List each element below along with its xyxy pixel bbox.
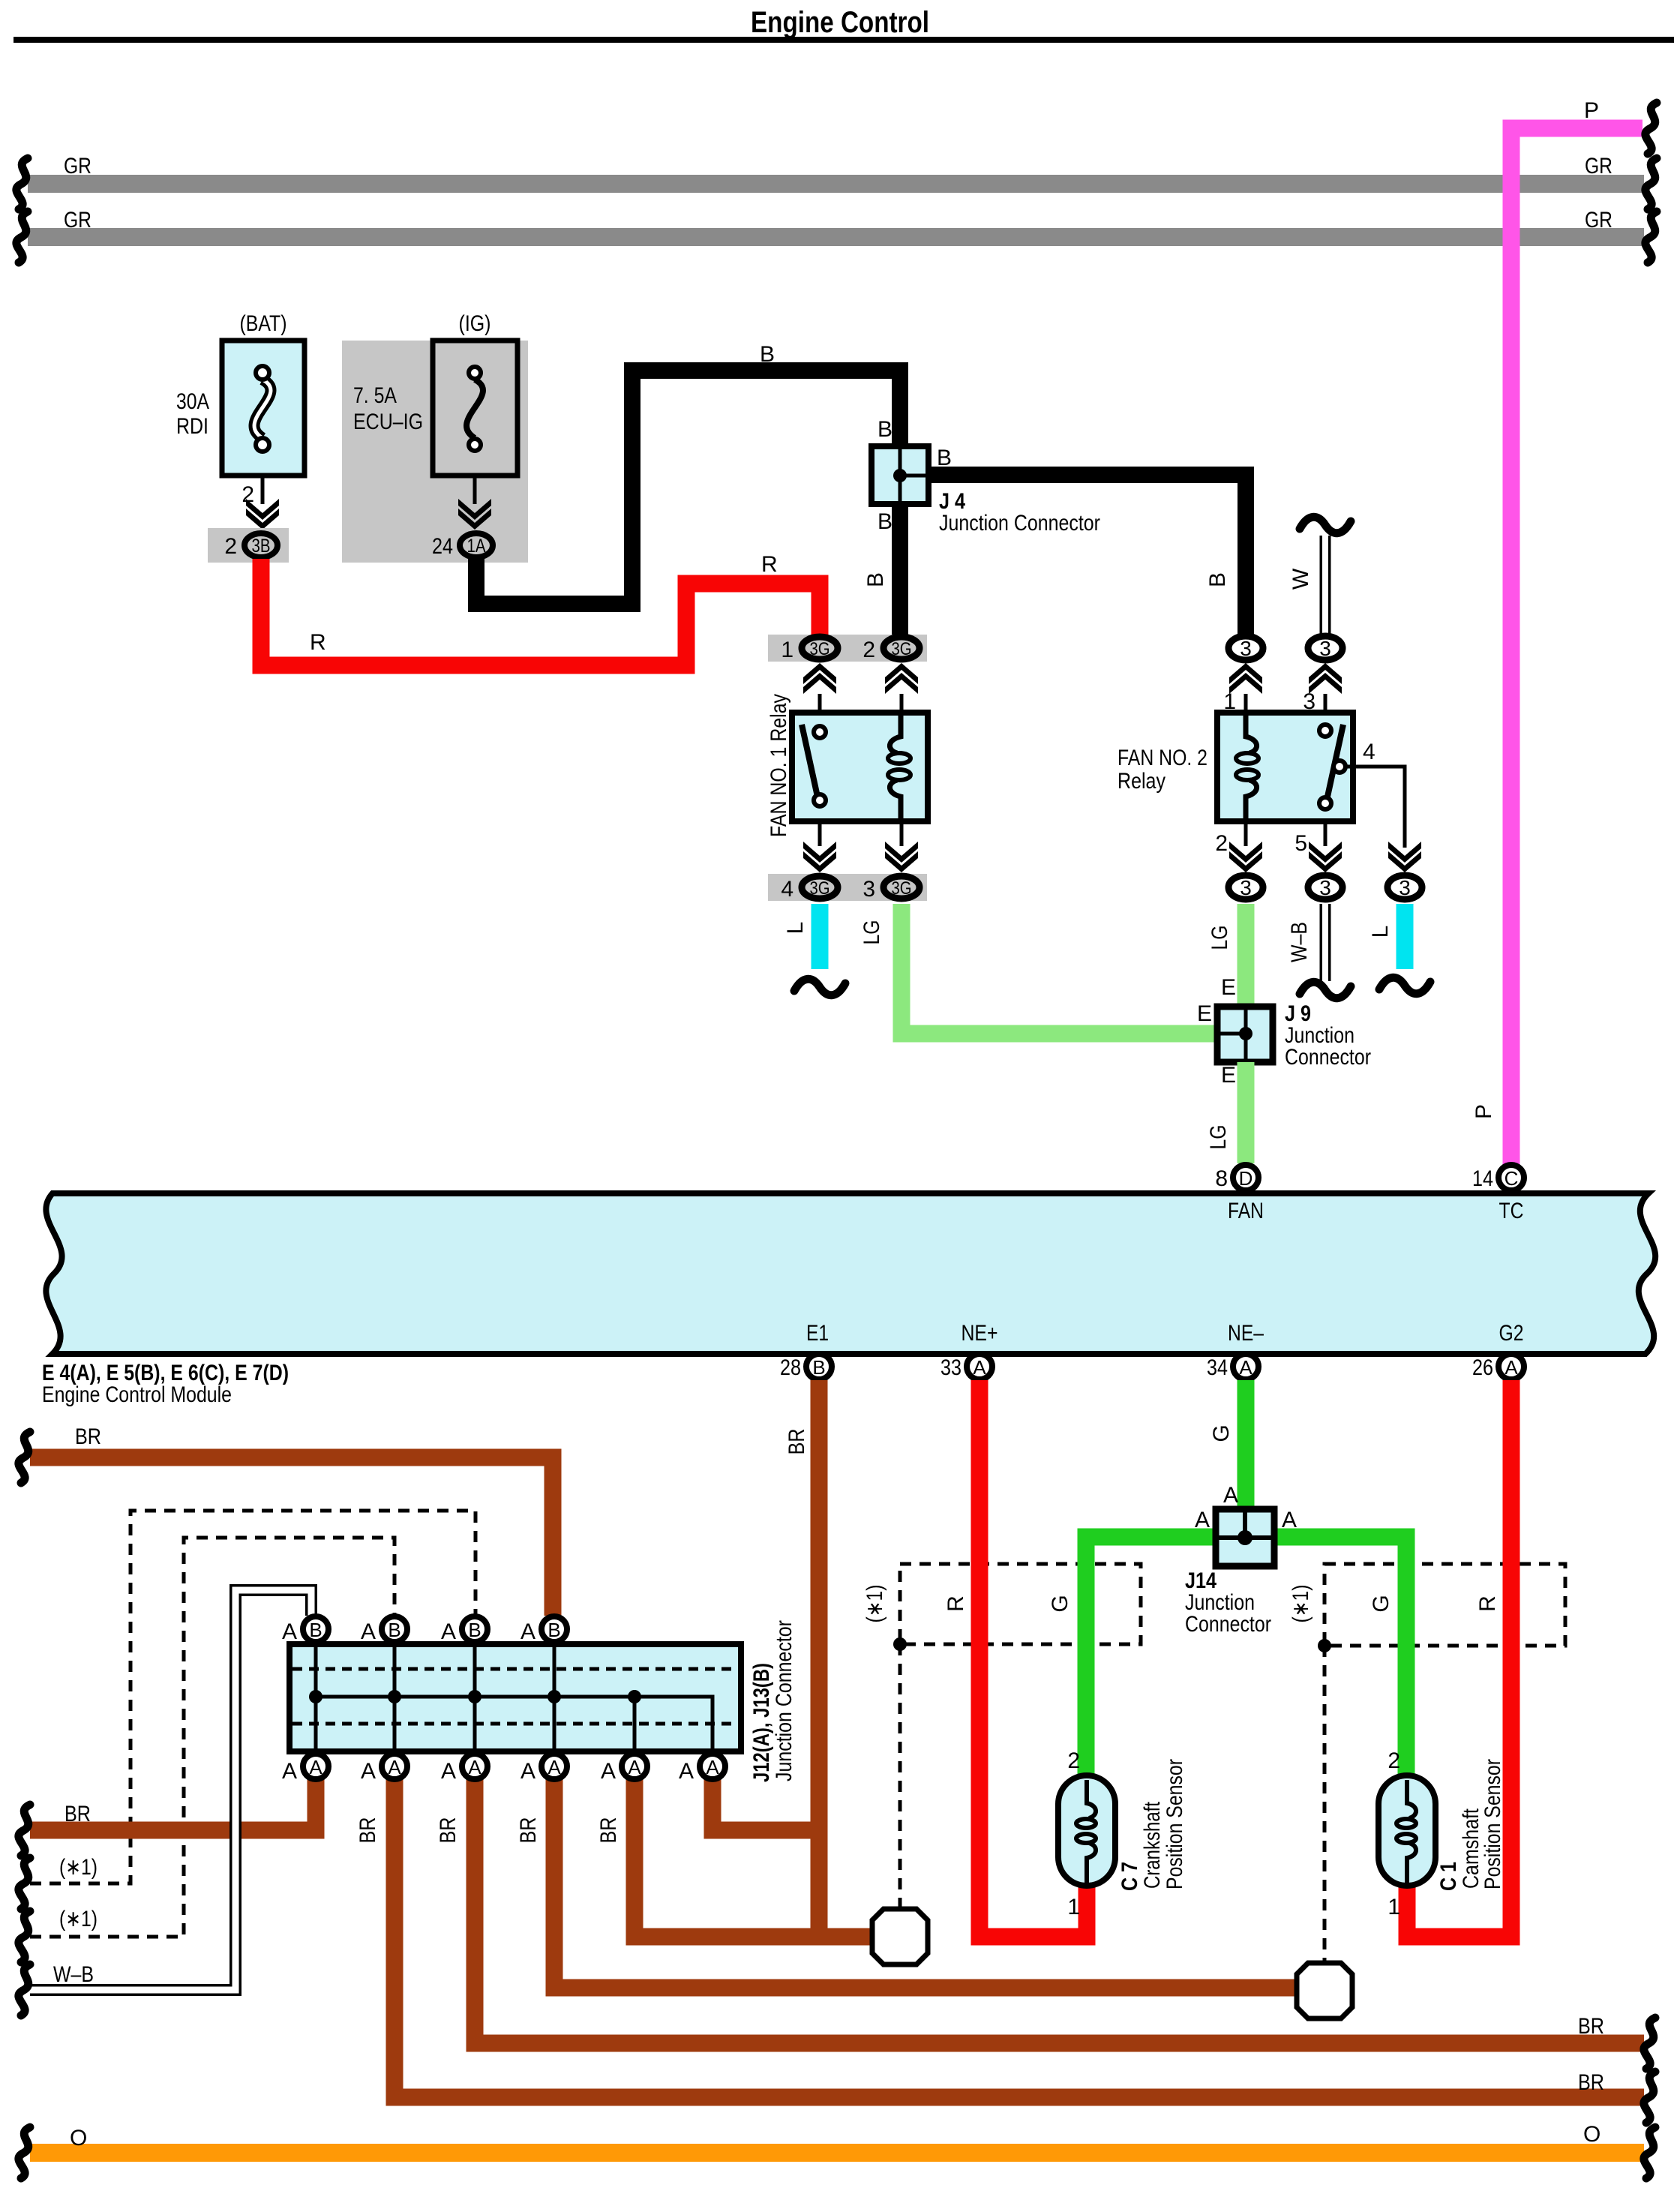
junction connector J14 bbox=[1216, 1509, 1274, 1566]
svg-text:Crankshaft: Crankshaft bbox=[1140, 1801, 1165, 1889]
wire G green NE- to J14 bbox=[1237, 1380, 1255, 1530]
svg-text:B: B bbox=[812, 1356, 825, 1379]
svg-text:A: A bbox=[1195, 1508, 1210, 1532]
svg-text:A: A bbox=[441, 1619, 456, 1644]
svg-text:Connector: Connector bbox=[1285, 1045, 1371, 1070]
wire shield drop left dashed bbox=[898, 1644, 902, 1907]
wire BR J12 A6 to E1 branch bbox=[712, 1779, 819, 1830]
svg-text:O: O bbox=[1583, 2122, 1600, 2147]
J12 internal vertical 4 bbox=[553, 1644, 556, 1751]
svg-text:4: 4 bbox=[781, 877, 793, 902]
svg-text:D: D bbox=[1239, 1167, 1253, 1190]
terminal 28 B E1 bbox=[806, 1354, 832, 1379]
svg-text:3: 3 bbox=[862, 877, 875, 902]
svg-text:BR: BR bbox=[75, 1424, 101, 1449]
svg-text:GR: GR bbox=[1585, 154, 1612, 179]
wire relay2 pin5 arrow bbox=[1324, 821, 1327, 846]
svg-text:Position Sensor: Position Sensor bbox=[1162, 1759, 1187, 1889]
svg-text:B: B bbox=[388, 1619, 400, 1641]
svg-text:B: B bbox=[937, 446, 952, 470]
svg-text:BR: BR bbox=[596, 1817, 621, 1844]
svg-text:A: A bbox=[973, 1356, 986, 1379]
shield octagon 1 bbox=[872, 1909, 928, 1964]
break symbol L relay1 bbox=[794, 979, 845, 995]
J12 internal bus solid bbox=[316, 1697, 712, 1748]
svg-text:A: A bbox=[601, 1759, 616, 1784]
break symbol BR A1 left bbox=[19, 1805, 30, 1856]
wire O orange bottom bus bbox=[30, 2144, 1644, 2162]
relay2 pin4 contact circle bbox=[1333, 761, 1345, 773]
svg-text:O: O bbox=[70, 2126, 87, 2150]
relay1 coil bbox=[889, 713, 901, 753]
svg-text:LG: LG bbox=[859, 920, 884, 945]
wire relay2 pin4 bbox=[1345, 767, 1405, 848]
terminal 1 3G bbox=[802, 637, 838, 659]
svg-text:26: 26 bbox=[1472, 1355, 1493, 1380]
wire B black from 1A to J4 to relay1 pin2 bbox=[476, 371, 900, 636]
break symbol dashed inner bbox=[19, 1911, 30, 1962]
svg-text:GR: GR bbox=[64, 154, 91, 179]
svg-text:E: E bbox=[1197, 1001, 1212, 1026]
break symbol O left bbox=[19, 2127, 30, 2178]
svg-text:LG: LG bbox=[1207, 926, 1232, 950]
svg-text:2: 2 bbox=[224, 534, 237, 559]
svg-text:34: 34 bbox=[1207, 1355, 1228, 1380]
svg-text:2: 2 bbox=[1067, 1748, 1080, 1773]
svg-text:A: A bbox=[388, 1756, 401, 1778]
J12 internal vertical 2 bbox=[393, 1644, 397, 1751]
wire W-B below relay2 pin5 bbox=[1320, 904, 1331, 981]
svg-text:(BAT): (BAT) bbox=[240, 311, 287, 336]
wire relay1 pin3 arrow bbox=[900, 821, 904, 846]
terminal 26 A G2 bbox=[1498, 1354, 1524, 1379]
svg-text:G2: G2 bbox=[1499, 1321, 1524, 1346]
wire W-B thin from left to J12 B1 bbox=[30, 1590, 311, 1990]
svg-text:BR: BR bbox=[64, 1802, 91, 1826]
svg-text:(∗1): (∗1) bbox=[59, 1907, 97, 1931]
break symbol GR2 left bbox=[16, 212, 28, 263]
svg-text:A: A bbox=[706, 1756, 719, 1778]
svg-text:BR: BR bbox=[355, 1817, 380, 1844]
terminal 2 3G bbox=[883, 637, 919, 659]
terminal band 3G bottom relay1 bbox=[768, 874, 927, 901]
svg-text:C: C bbox=[1504, 1167, 1519, 1190]
svg-text:A: A bbox=[547, 1756, 561, 1778]
svg-text:8: 8 bbox=[1215, 1166, 1228, 1191]
break symbol GR1 right bbox=[1645, 158, 1657, 209]
wire BR J12 A4 to shield octagon 2 bbox=[554, 1779, 1298, 1988]
terminal B1 J12 bbox=[303, 1616, 328, 1642]
svg-text:GR: GR bbox=[64, 208, 91, 233]
svg-text:Relay: Relay bbox=[1117, 769, 1165, 794]
svg-text:A: A bbox=[1239, 1356, 1252, 1379]
svg-text:BR: BR bbox=[784, 1429, 809, 1455]
wire BR J12 A3 to right edge bbox=[475, 1779, 1644, 2043]
wire R red from 3B to relay1 pin1 bbox=[261, 559, 820, 665]
svg-text:3G: 3G bbox=[892, 878, 912, 899]
svg-text:28: 28 bbox=[780, 1355, 801, 1380]
svg-text:BR: BR bbox=[1578, 2014, 1604, 2039]
svg-text:A: A bbox=[520, 1759, 535, 1784]
svg-text:W: W bbox=[1288, 568, 1313, 590]
svg-text:ECU–IG: ECU–IG bbox=[353, 410, 423, 434]
J12 internal dashed row 1 bbox=[292, 1667, 738, 1671]
svg-text:Engine Control: Engine Control bbox=[751, 6, 929, 39]
terminal band 3G top relay1 bbox=[768, 635, 927, 662]
fuse element ECU-IG bbox=[466, 380, 483, 438]
svg-text:L: L bbox=[783, 922, 808, 935]
terminal 3 top-right relay2 bbox=[1308, 636, 1342, 660]
terminal 3B bbox=[244, 533, 277, 557]
svg-text:3G: 3G bbox=[810, 639, 830, 659]
svg-text:3: 3 bbox=[1240, 637, 1252, 660]
break symbol BR2 right bbox=[1644, 2072, 1655, 2123]
svg-text:RDI: RDI bbox=[176, 414, 208, 439]
svg-text:G: G bbox=[1209, 1424, 1234, 1442]
svg-text:33: 33 bbox=[940, 1355, 961, 1380]
svg-text:P: P bbox=[1584, 98, 1599, 123]
svg-text:(∗1): (∗1) bbox=[862, 1585, 887, 1623]
wire BR J12 A5 to shield octagon 1 bbox=[634, 1779, 874, 1937]
svg-text:A: A bbox=[441, 1759, 456, 1784]
terminal 3 bottom-mid relay2 bbox=[1308, 875, 1342, 899]
wire BR from E1 28B down bbox=[811, 1380, 828, 1937]
svg-text:24: 24 bbox=[432, 534, 453, 559]
terminal 3 bottom-left relay2 bbox=[1228, 875, 1263, 899]
svg-text:A: A bbox=[628, 1756, 641, 1778]
svg-text:B: B bbox=[863, 572, 888, 587]
svg-text:B: B bbox=[760, 342, 775, 367]
svg-text:A: A bbox=[1282, 1508, 1297, 1532]
sensor C1 camshaft position sensor bbox=[1378, 1775, 1435, 1886]
svg-text:A: A bbox=[520, 1619, 535, 1644]
junction connector J4 bbox=[871, 446, 928, 504]
terminal 3 top-left relay2 bbox=[1228, 636, 1263, 660]
svg-text:5: 5 bbox=[1294, 831, 1307, 856]
svg-text:A: A bbox=[282, 1759, 297, 1784]
svg-text:B: B bbox=[309, 1619, 322, 1641]
svg-text:3: 3 bbox=[1399, 876, 1411, 899]
wire relay1 pin4 arrow bbox=[818, 821, 822, 846]
svg-text:R: R bbox=[943, 1595, 968, 1612]
terminal B3 J12 bbox=[462, 1616, 487, 1642]
wire relay2 pin2 arrow bbox=[1244, 821, 1248, 846]
fuse element 30A RDI bbox=[254, 380, 271, 438]
svg-text:B: B bbox=[877, 509, 892, 534]
svg-text:P: P bbox=[1471, 1104, 1496, 1119]
terminal 3 3G bbox=[883, 876, 919, 899]
fuse 30A RDI box bbox=[222, 341, 304, 476]
svg-text:B: B bbox=[1205, 572, 1230, 587]
svg-text:FAN: FAN bbox=[1228, 1199, 1264, 1223]
svg-text:3: 3 bbox=[1240, 876, 1252, 899]
wire relay1 pin1 arrow bbox=[818, 694, 822, 713]
wire GR bus 1 bbox=[28, 175, 1644, 193]
wire L below relay2 pin4 bbox=[1396, 904, 1414, 969]
wire relay2 pin1 arrow bbox=[1244, 694, 1248, 713]
svg-text:3G: 3G bbox=[810, 878, 830, 899]
svg-text:14: 14 bbox=[1472, 1166, 1493, 1191]
svg-text:2: 2 bbox=[1387, 1748, 1400, 1773]
svg-text:NE+: NE+ bbox=[961, 1321, 998, 1346]
svg-text:B: B bbox=[877, 417, 892, 442]
terminal 14 C TC bbox=[1498, 1165, 1524, 1190]
wire R red G2 to C1 pin1 bbox=[1407, 1380, 1511, 1937]
wire LG relay2 pin2 to J9 bbox=[1237, 904, 1255, 1007]
J12 internal vertical 3 bbox=[473, 1644, 477, 1751]
wire GR bus 2 bbox=[28, 228, 1644, 246]
svg-text:A: A bbox=[282, 1619, 297, 1644]
wire relay2 pin3 arrow bbox=[1324, 694, 1327, 713]
dashed box right (*1) bbox=[1324, 1564, 1565, 1646]
svg-text:Connector: Connector bbox=[1185, 1612, 1271, 1637]
wire P pink TC line bbox=[1511, 128, 1642, 1167]
svg-text:A: A bbox=[1223, 1483, 1238, 1508]
svg-text:1A: 1A bbox=[467, 536, 486, 557]
svg-text:3G: 3G bbox=[892, 639, 912, 659]
svg-text:Junction Connector: Junction Connector bbox=[939, 511, 1100, 536]
wire W white above relay2 pin3 bbox=[1320, 536, 1331, 634]
J12 internal dots bbox=[309, 1690, 322, 1703]
svg-text:E: E bbox=[1221, 1063, 1236, 1088]
J12 internal vertical 1 bbox=[314, 1644, 318, 1751]
terminal A5 J12 bbox=[622, 1754, 647, 1779]
terminal A1 J12 bbox=[303, 1754, 328, 1779]
dashed box left (*1) bbox=[900, 1564, 1141, 1644]
terminal 1A bbox=[460, 533, 493, 557]
svg-text:G: G bbox=[1048, 1595, 1072, 1612]
terminal 8 D FAN bbox=[1233, 1165, 1258, 1190]
terminal 33 A NE+ bbox=[967, 1354, 992, 1379]
break symbol GR1 left bbox=[16, 158, 28, 209]
svg-text:2: 2 bbox=[1215, 831, 1228, 856]
svg-text:B: B bbox=[547, 1619, 560, 1641]
svg-text:A: A bbox=[468, 1756, 481, 1778]
svg-text:BR: BR bbox=[516, 1817, 541, 1844]
svg-text:1: 1 bbox=[1387, 1895, 1400, 1919]
svg-text:J12(A), J13(B): J12(A), J13(B) bbox=[749, 1663, 774, 1782]
terminal A6 J12 bbox=[700, 1754, 725, 1779]
svg-text:A: A bbox=[679, 1759, 694, 1784]
svg-text:FAN NO. 2: FAN NO. 2 bbox=[1117, 746, 1207, 770]
svg-text:C 1: C 1 bbox=[1436, 1862, 1461, 1891]
svg-text:A: A bbox=[1504, 1356, 1518, 1379]
wire G green J14 cross to sensors bbox=[1086, 1537, 1406, 1775]
svg-text:(IG): (IG) bbox=[459, 311, 491, 336]
wire B black J4 to relay2 pin1 bbox=[920, 475, 1246, 634]
break symbol W-B left bbox=[19, 1964, 30, 2015]
svg-text:E: E bbox=[1221, 975, 1236, 1000]
shield octagon 2 bbox=[1297, 1963, 1352, 2018]
svg-text:L: L bbox=[1368, 926, 1393, 938]
svg-text:7. 5A: 7. 5A bbox=[353, 383, 397, 408]
svg-text:(∗1): (∗1) bbox=[59, 1855, 97, 1880]
relay2 coil bbox=[1246, 713, 1257, 753]
break symbol W top bbox=[1300, 517, 1351, 533]
svg-text:3: 3 bbox=[1319, 637, 1331, 660]
terminal 4 3G bbox=[802, 876, 838, 899]
svg-text:FAN NO. 1 Relay: FAN NO. 1 Relay bbox=[766, 694, 791, 837]
svg-text:R: R bbox=[1475, 1595, 1500, 1612]
svg-text:A: A bbox=[361, 1619, 376, 1644]
wire relay1 pin2 arrow bbox=[900, 694, 904, 713]
svg-text:4: 4 bbox=[1363, 740, 1375, 764]
svg-text:3B: 3B bbox=[252, 536, 271, 557]
terminal B4 J12 bbox=[541, 1616, 567, 1642]
svg-text:R: R bbox=[761, 552, 778, 577]
svg-text:W–B: W–B bbox=[1287, 922, 1312, 962]
fuse 7.5A ECU-IG box bbox=[433, 341, 517, 476]
break symbol BR1 right bbox=[1644, 2018, 1655, 2069]
terminal 3 bottom-right relay2 bbox=[1387, 875, 1422, 899]
break symbol O right bbox=[1644, 2127, 1655, 2178]
node dot right dashed box bbox=[1318, 1639, 1331, 1652]
break symbol BR top left bbox=[19, 1432, 30, 1483]
svg-text:3: 3 bbox=[1319, 876, 1331, 899]
junction connector J9 bbox=[1217, 1007, 1273, 1062]
terminal A3 J12 bbox=[462, 1754, 487, 1779]
svg-text:2: 2 bbox=[862, 638, 875, 662]
wire BR from J12 A1 to left bbox=[30, 1779, 316, 1830]
terminal A4 J12 bbox=[541, 1754, 567, 1779]
J12 internal vertical 5 bbox=[633, 1697, 637, 1751]
svg-text:2: 2 bbox=[241, 482, 254, 507]
svg-text:NE–: NE– bbox=[1228, 1321, 1264, 1346]
wire (*1) dashed outer to J12 B3 bbox=[30, 1511, 475, 1883]
svg-text:Junction Connector: Junction Connector bbox=[772, 1620, 796, 1781]
wire shield drop right dashed bbox=[1323, 1646, 1327, 1961]
svg-text:Engine Control Module: Engine Control Module bbox=[42, 1382, 232, 1407]
relay FAN NO. 2 Relay box bbox=[1217, 713, 1353, 821]
wire fuse RDI to terminal 3B bbox=[261, 476, 265, 504]
svg-text:G: G bbox=[1369, 1595, 1393, 1612]
svg-text:BR: BR bbox=[436, 1817, 460, 1844]
break symbol W-B bbox=[1300, 982, 1351, 998]
node dot left dashed box bbox=[893, 1637, 907, 1651]
terminal 3B highlight bbox=[208, 528, 289, 563]
svg-text:LG: LG bbox=[1206, 1125, 1231, 1150]
wire (*1) dashed inner to J12 B2 bbox=[30, 1538, 394, 1937]
svg-text:BR: BR bbox=[1578, 2070, 1604, 2095]
break symbol L relay2 bbox=[1379, 977, 1430, 993]
sensor C7 crankshaft position sensor bbox=[1058, 1775, 1115, 1886]
ECM Engine Control Module band bbox=[46, 1193, 1655, 1354]
terminal B2 J12 bbox=[382, 1616, 407, 1642]
wire LG J9 to ECM FAN bbox=[1237, 1062, 1255, 1163]
title rule bbox=[13, 37, 1674, 43]
svg-text:GR: GR bbox=[1585, 208, 1612, 233]
wire BR J12 A2 to right edge bbox=[394, 1779, 1644, 2097]
svg-text:Position Sensor: Position Sensor bbox=[1480, 1759, 1505, 1889]
J12 internal dashed row 2 bbox=[292, 1722, 738, 1726]
wire R red NE+ to C7 pin1 bbox=[979, 1380, 1087, 1937]
svg-text:(∗1): (∗1) bbox=[1288, 1585, 1313, 1623]
relay FAN NO. 1 Relay box bbox=[792, 713, 928, 821]
fuse block gray area ECU-IG bbox=[342, 341, 528, 563]
junction connector J12(A) J13(B) box bbox=[289, 1644, 741, 1751]
svg-text:A: A bbox=[309, 1756, 322, 1778]
svg-text:R: R bbox=[310, 630, 326, 655]
svg-text:W–B: W–B bbox=[53, 1962, 94, 1987]
break symbol P right bbox=[1645, 103, 1657, 154]
relay1 switch contact bbox=[802, 725, 817, 797]
terminal 34 A NE- bbox=[1233, 1354, 1258, 1379]
wire L cyan below 4 3G bbox=[811, 904, 829, 969]
relay2 switch contact bbox=[1327, 725, 1343, 797]
svg-text:C 7: C 7 bbox=[1117, 1862, 1142, 1891]
wire BR top left to J12 B4 bbox=[30, 1457, 553, 1616]
break symbol GR2 right bbox=[1645, 212, 1657, 263]
svg-text:E1: E1 bbox=[806, 1321, 829, 1346]
svg-text:TC: TC bbox=[1499, 1199, 1524, 1223]
svg-text:1: 1 bbox=[1067, 1895, 1080, 1919]
svg-text:30A: 30A bbox=[176, 389, 209, 414]
wire fuse ECU-IG to terminal 1A bbox=[473, 476, 477, 504]
svg-text:1: 1 bbox=[781, 638, 793, 662]
svg-text:B: B bbox=[468, 1619, 481, 1641]
wire LG from 3 3G to J9 bbox=[901, 904, 1217, 1034]
break symbol dashed outer bbox=[19, 1858, 30, 1909]
terminal A2 J12 bbox=[382, 1754, 407, 1779]
svg-text:A: A bbox=[361, 1759, 376, 1784]
